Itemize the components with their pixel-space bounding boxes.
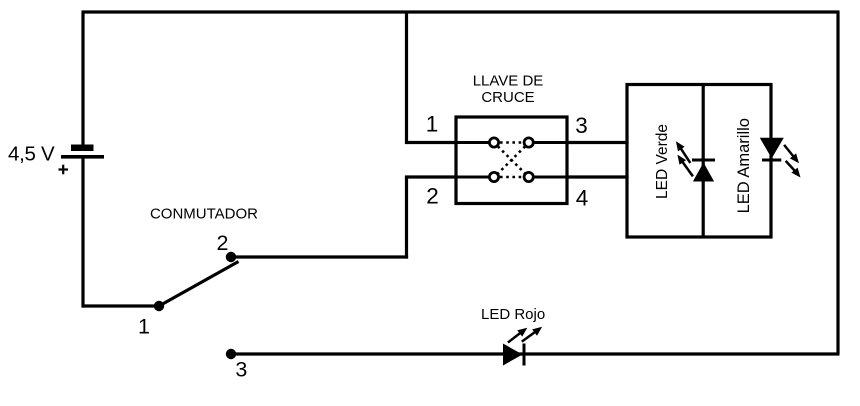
svg-text:CRUCE: CRUCE (481, 89, 534, 106)
LED verde arrows (676, 141, 693, 176)
svg-text:4: 4 (576, 186, 589, 211)
LED box (627, 85, 771, 238)
battery BT1 4,5V (61, 145, 104, 159)
wire node2 to riser (231, 255, 408, 258)
wire left vertical lower (battery to bottom) (81, 159, 84, 308)
svg-text:LED Rojo: LED Rojo (481, 306, 545, 323)
conmutador node 2 (226, 252, 236, 262)
svg-text:CONMUTADOR: CONMUTADOR (150, 206, 258, 223)
wire drop from top to terminal 1 (405, 12, 408, 143)
llave de cruce box (456, 117, 567, 204)
svg-text:LED Amarillo: LED Amarillo (735, 118, 753, 213)
llave internal wire terminal 4 (533, 176, 567, 179)
conmutador node 3 (226, 349, 236, 359)
svg-text:1: 1 (426, 112, 439, 137)
wire horizontal into terminal 2 (405, 175, 456, 178)
wire right vertical (836, 12, 839, 354)
llave contact circle 4 (524, 172, 533, 181)
svg-text:3: 3 (235, 358, 247, 382)
wire terminal 4 to LED box (567, 175, 629, 178)
svg-text:2: 2 (426, 184, 439, 209)
llave contact circle 1 (489, 138, 498, 147)
LED rojo arrows (508, 327, 542, 343)
LED verde D1 (692, 160, 715, 182)
llave internal wire terminal 3 (533, 141, 567, 144)
llave contact circle 3 (524, 138, 533, 147)
svg-text:4,5 V: 4,5 V (8, 143, 55, 166)
svg-text:3: 3 (575, 113, 588, 138)
llave internal wire terminal 2 (456, 176, 490, 179)
svg-text:1: 1 (138, 315, 150, 339)
wire riser to terminal 2 (405, 177, 408, 259)
llave internal wire terminal 1 (456, 141, 490, 144)
svg-text:2: 2 (217, 231, 229, 255)
LED rojo D3 (503, 344, 524, 366)
wire bottom from node 3 to right (231, 352, 840, 355)
wire terminal 3 to LED box (567, 141, 629, 144)
wire horizontal into terminal 1 (405, 141, 456, 144)
conmutador lever from node 1 to node 2 (159, 262, 239, 307)
llave dotted cross links (498, 143, 525, 178)
wire left vertical upper (battery to top) (81, 12, 84, 147)
wire bottom-left horizontal to node 1 (83, 304, 159, 307)
LED box divider wire (702, 85, 705, 238)
svg-text:LLAVE DE: LLAVE DE (473, 73, 544, 90)
battery plus sign (59, 165, 69, 175)
llave contact circle 2 (489, 172, 498, 181)
LED amarillo D2 (760, 138, 784, 160)
conmutador node 1 (154, 301, 164, 311)
LED amarillo arrows (784, 145, 800, 178)
wire top (82, 10, 840, 13)
svg-text:LED Verde: LED Verde (654, 124, 671, 199)
